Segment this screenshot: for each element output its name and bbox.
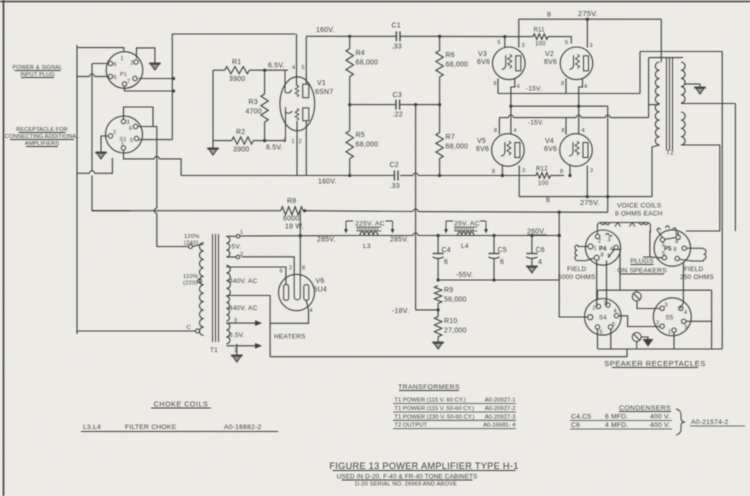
- dimension arrows 225VAC: [346, 221, 393, 231]
- wire R6 top: [439, 36, 441, 50]
- svg-text:4: 4: [584, 84, 587, 90]
- capacitor C3: [395, 100, 397, 110]
- svg-text:400 V.: 400 V.: [650, 422, 670, 429]
- wire R7 bottom: [439, 159, 441, 176]
- junction 559 at rail: [558, 234, 561, 237]
- wire -18V: [416, 309, 439, 311]
- wire screw to S5 pin3: [637, 302, 660, 309]
- wire V3 pin4 down: [511, 79, 515, 135]
- resistor R9: [434, 286, 441, 304]
- wire R2 right to V1 grid2: [253, 140, 285, 142]
- screw terminal bottom: [632, 333, 641, 342]
- bottom rail 160V part3: [418, 175, 536, 177]
- svg-text:1: 1: [240, 230, 243, 236]
- svg-text:ON SPEAKERS: ON SPEAKERS: [617, 268, 667, 275]
- wire C3 node right: [400, 104, 440, 106]
- wire T2 sec bottom end: [681, 144, 720, 146]
- wire 440 center tap down: [226, 296, 270, 357]
- svg-text:6: 6: [114, 62, 117, 68]
- svg-text:C5: C5: [498, 247, 507, 254]
- junction 212 at 559: [558, 211, 561, 214]
- svg-text:T1 POWER (115 V. 50-60 CY.): T1 POWER (115 V. 50-60 CY.): [394, 406, 474, 412]
- junction R6 top: [438, 35, 441, 38]
- junction R1-R3: [263, 69, 266, 72]
- transformer T1 core: [213, 234, 219, 342]
- connector P5 speaker plug: [654, 230, 690, 266]
- wire C5 top: [493, 236, 495, 254]
- svg-text:6 MFD.: 6 MFD.: [605, 414, 628, 421]
- rail 285V main: [240, 235, 357, 238]
- wire V3 pin3 feed: [518, 19, 520, 47]
- label PLUGS underline: [631, 264, 654, 266]
- wire T2 ground stub: [684, 83, 700, 85]
- rail 285V to L4: [381, 235, 413, 237]
- field coil 5000 ohm: [578, 245, 588, 247]
- wire P4 pin5 stub down: [606, 261, 608, 306]
- svg-text:8: 8: [601, 253, 604, 259]
- wire V5 pin8 bottom: [501, 165, 503, 176]
- svg-text:C6: C6: [571, 422, 580, 429]
- rail 275V top: [519, 18, 662, 20]
- svg-text:6.5V.: 6.5V.: [229, 332, 245, 339]
- wire V1 bottom grid to rail: [296, 121, 298, 176]
- wire T2 primary top feed: [660, 19, 662, 62]
- wire P1 pin8 to shield box: [125, 86, 174, 91]
- junction V3 pin5: [503, 35, 506, 38]
- resistor R6: [436, 51, 443, 78]
- svg-text:440V. AC: 440V. AC: [229, 278, 258, 285]
- svg-text:R12: R12: [536, 167, 548, 173]
- wire P4 pin4 right down: [613, 250, 621, 291]
- svg-text:V6: V6: [316, 278, 325, 285]
- wire S1 pin5 right to grid line: [139, 139, 173, 141]
- wire R1R2 left vertical: [212, 70, 214, 145]
- wire heater ground bus: [270, 349, 627, 357]
- svg-text:68,000: 68,000: [356, 142, 379, 149]
- rail R8 to plate rail: [303, 210, 413, 213]
- svg-text:CONDENSERS: CONDENSERS: [619, 405, 671, 412]
- svg-text:2: 2: [593, 306, 596, 312]
- junction P1 pin7 at box: [172, 77, 175, 80]
- svg-text:C6: C6: [536, 247, 545, 254]
- label ON SPEAKERS underline: [620, 273, 664, 275]
- wire R1 right to V1 grid: [249, 69, 288, 71]
- screw terminal top: [632, 292, 641, 301]
- svg-text:.33: .33: [392, 44, 402, 51]
- transformer T1 primary: [199, 243, 203, 336]
- resistor R8: [281, 207, 303, 215]
- svg-text:4: 4: [538, 259, 542, 266]
- svg-text:A0-16682-2: A0-16682-2: [224, 424, 262, 431]
- svg-text:PLUGS: PLUGS: [630, 258, 654, 265]
- hop bias rail 2: [576, 115, 581, 117]
- wire -55V to S4: [559, 280, 587, 317]
- svg-text:4: 4: [292, 65, 295, 71]
- label SPEAKER RECEPTACLES underline: [612, 367, 698, 369]
- svg-text:L3: L3: [363, 243, 371, 250]
- wire S4 bottom left: [597, 329, 599, 349]
- wire S1 pin1 to cathode rail part2: [159, 159, 181, 176]
- svg-text:USED IN D-20, F-40 & FR-40 TON: USED IN D-20, F-40 & FR-40 TONE CABINETS: [337, 474, 478, 481]
- capacitor C2: [393, 171, 395, 181]
- rail -15V lower b: [513, 117, 576, 119]
- svg-text:D-20 SERIAL NO. 26969 AND ABOV: D-20 SERIAL NO. 26969 AND ABOVE: [355, 482, 457, 488]
- wire S5 bottom: [673, 332, 675, 349]
- svg-text:3: 3: [522, 168, 525, 174]
- table transformers row4 underline: [393, 428, 516, 430]
- ground at T2 secondary: [699, 84, 701, 87]
- transformer T1 sec 6.5V: [226, 323, 229, 344]
- svg-text:6V6: 6V6: [544, 146, 557, 153]
- wire T2 right vertical: [721, 52, 723, 350]
- svg-text:TRANSFORMERS: TRANSFORMERS: [398, 384, 460, 391]
- arrow heater top: [255, 320, 262, 326]
- rail 260V: [477, 235, 559, 237]
- wire S1 pin1 to cathode rail: [124, 150, 155, 159]
- wire V5 pin8 top: [498, 118, 500, 135]
- junction V2 pin4 screen rail: [577, 105, 580, 108]
- ground under R10: [437, 339, 439, 342]
- table transformers row3 underline: [393, 419, 516, 421]
- wire center tap top: [649, 57, 683, 59]
- resistor R10: [434, 317, 441, 337]
- svg-text:L4: L4: [461, 243, 469, 250]
- wire coils to 720: [686, 230, 720, 232]
- svg-text:V5: V5: [477, 138, 486, 145]
- wire 275V to V2 pin3: [586, 19, 588, 47]
- svg-text:4700: 4700: [246, 109, 262, 116]
- svg-text:225V. AC: 225V. AC: [355, 221, 385, 228]
- svg-text:5: 5: [114, 75, 117, 81]
- svg-text:R2: R2: [236, 129, 245, 136]
- label 260V underline: [527, 234, 547, 236]
- junction R4-R5-C3: [348, 103, 351, 106]
- svg-text:3: 3: [590, 43, 593, 49]
- junction C3 right: [438, 103, 441, 106]
- wire center tap: [649, 104, 660, 106]
- svg-text:3: 3: [608, 238, 611, 244]
- caption FIGURE 13 underline: [333, 470, 516, 472]
- svg-text:7: 7: [127, 79, 130, 85]
- ground at speaker box: [643, 339, 654, 347]
- svg-text:C1: C1: [392, 23, 401, 30]
- wire S4-S5 link: [619, 316, 661, 327]
- svg-text:260V.: 260V.: [527, 229, 546, 236]
- svg-text:A0-16681- 4: A0-16681- 4: [483, 423, 516, 429]
- terminal T1 tap 110: [198, 279, 202, 283]
- wire left bus vertical: [76, 45, 78, 334]
- wire 160V rail to V1 plate: [305, 36, 307, 84]
- junction -18V node: [437, 308, 440, 311]
- svg-text:4 MFD.: 4 MFD.: [605, 422, 628, 429]
- svg-text:2: 2: [289, 266, 292, 272]
- wire pin6 bus lower part: [157, 213, 189, 246]
- wire heater lead top: [226, 322, 256, 324]
- svg-text:5: 5: [662, 251, 665, 257]
- junction rail R4: [348, 35, 351, 38]
- table condensers row1 underline: [570, 420, 672, 422]
- terminal T1 tap C: [196, 329, 200, 333]
- label CONNECTING ADDITIONAL underline: [10, 139, 74, 141]
- svg-text:-18V.: -18V.: [392, 308, 409, 315]
- wire P1 pin5 right part: [95, 76, 110, 78]
- svg-text:-15V.: -15V.: [526, 86, 542, 93]
- wire recept box right: [711, 290, 713, 349]
- svg-text:8: 8: [674, 247, 677, 253]
- resistor R5: [346, 131, 353, 159]
- wire right vertical 735: [734, 104, 736, 232]
- hop pin6 bus over R8 rail: [154, 208, 157, 213]
- junction -55 C5: [492, 278, 495, 281]
- svg-text:100: 100: [535, 42, 546, 48]
- rail R8 to plate rail part2: [418, 211, 608, 214]
- tube V5 6V6: [492, 134, 525, 167]
- svg-text:C4,C5: C4,C5: [571, 414, 591, 421]
- svg-text:6: 6: [600, 330, 603, 336]
- tube V1 6SN7: [280, 77, 315, 131]
- table transformers row1 underline: [393, 403, 516, 405]
- wire S1 ground bus: [77, 172, 90, 174]
- wire V4 pin8 bottom: [569, 165, 571, 176]
- hop R8 rail over bias vertical: [413, 209, 418, 212]
- resistor R2: [232, 137, 254, 144]
- wire S1 pin2 to ground: [101, 136, 108, 149]
- svg-text:4: 4: [514, 128, 517, 134]
- svg-text:2: 2: [113, 130, 116, 136]
- svg-text:R4: R4: [356, 50, 365, 57]
- svg-text:T2 OUTPUT: T2 OUTPUT: [394, 423, 427, 429]
- terminal T1 sec1 pin2: [236, 255, 240, 259]
- wire recept box left top: [597, 290, 599, 300]
- table title CONDENSERS underline: [619, 411, 671, 413]
- table title TRANSFORMERS underline: [399, 390, 459, 392]
- svg-text:(220): (220): [183, 281, 198, 287]
- svg-text:2: 2: [656, 321, 659, 327]
- wire P1 pin1 to left bus: [77, 48, 124, 52]
- wire P4 pin8 stub down: [596, 260, 598, 307]
- junction R7 rail: [438, 174, 441, 177]
- svg-text:A0-20927-3: A0-20927-3: [485, 414, 517, 420]
- hop bias rail 3: [605, 115, 610, 117]
- svg-text:3: 3: [283, 138, 286, 144]
- rail R8 wire: [92, 210, 281, 212]
- svg-text:8: 8: [562, 128, 565, 134]
- voice coil symbols: [597, 223, 650, 234]
- wire S1 ground bus right: [95, 158, 113, 173]
- junction R3-R2: [263, 139, 266, 142]
- ground under C6: [531, 263, 533, 266]
- svg-text:250 OHMS: 250 OHMS: [680, 274, 714, 281]
- resistor R7: [436, 133, 443, 159]
- svg-text:160V.: 160V.: [318, 179, 337, 186]
- svg-text:C: C: [187, 325, 191, 331]
- svg-text:2: 2: [131, 61, 134, 67]
- junction V2 feed: [586, 18, 589, 21]
- svg-text:68,000: 68,000: [356, 60, 379, 67]
- choke L4: [455, 232, 477, 236]
- wire V5 pin3 to plate rail: [518, 166, 520, 197]
- svg-text:T1 POWER (230 V. 50-60 CY.): T1 POWER (230 V. 50-60 CY.): [394, 414, 474, 420]
- connector S1 receptacle: [106, 116, 143, 153]
- wire R6-R7 link: [439, 77, 441, 133]
- resistor R4: [346, 49, 353, 77]
- svg-text:R8: R8: [287, 198, 296, 205]
- svg-text:2: 2: [299, 139, 302, 145]
- junction rail C6: [530, 234, 533, 237]
- wire recept box bottom: [598, 348, 722, 350]
- svg-text:100: 100: [538, 181, 549, 187]
- svg-text:25V. AC: 25V. AC: [454, 221, 480, 228]
- svg-text:3900: 3900: [229, 76, 245, 83]
- junction R5 rail: [348, 174, 351, 177]
- svg-text:(240): (240): [184, 241, 199, 247]
- svg-text:3: 3: [590, 168, 593, 174]
- capacitor C5: [489, 253, 500, 255]
- svg-text:27,000: 27,000: [444, 328, 467, 335]
- wire ground stub speaker: [641, 337, 648, 339]
- transformer T2 secondary bottom: [681, 112, 685, 145]
- svg-text:120%: 120%: [184, 234, 200, 240]
- wire V4 pin3 to plate rail: [586, 166, 588, 197]
- svg-text:A0-21574-2: A0-21574-2: [691, 419, 729, 426]
- ground under R1R2: [212, 145, 214, 148]
- svg-text:1: 1: [594, 246, 597, 252]
- svg-text:FILTER CHOKE: FILTER CHOKE: [125, 424, 177, 431]
- svg-text:V4: V4: [545, 138, 554, 145]
- svg-text:56,000: 56,000: [444, 297, 467, 304]
- wire C tap: [77, 331, 196, 334]
- junction V6 pin8 at 285V rail: [299, 234, 302, 237]
- ground under T1: [236, 352, 238, 355]
- svg-text:6.5V.: 6.5V.: [268, 63, 285, 70]
- rail -15V lower: [499, 117, 508, 119]
- label AMPLIFIERS underline: [26, 146, 58, 148]
- wire 5V lead2 to V6 filament: [242, 257, 294, 271]
- svg-text:5: 5: [498, 40, 501, 46]
- svg-text:6V6: 6V6: [544, 59, 557, 66]
- caption USED IN underline: [342, 479, 473, 481]
- svg-text:4: 4: [684, 310, 687, 316]
- svg-text:FIGURE 13 POWER AMPLIFIER: FIGURE 13 POWER AMPLIFIER TYPE H-1: [329, 461, 518, 471]
- svg-text:R3: R3: [249, 99, 258, 106]
- svg-text:400 V.: 400 V.: [650, 414, 670, 421]
- rail 285V to L4 part2: [418, 235, 455, 237]
- wire V4 pin8 top: [565, 118, 567, 135]
- wire C6 bottom: [531, 258, 533, 263]
- wire V1 grid pin4 from box top: [296, 34, 298, 86]
- wire T1 ground stub: [236, 344, 238, 352]
- svg-text:18 W.: 18 W.: [285, 224, 304, 231]
- wire voice coil right end down: [649, 230, 651, 232]
- capacitor C6: [526, 253, 537, 255]
- wire R5 bottom: [349, 159, 351, 176]
- svg-text:VOICE COILS: VOICE COILS: [617, 203, 662, 210]
- rail 160V top right of C1: [400, 35, 440, 37]
- wire pin6 bus vertical lower: [92, 176, 130, 211]
- rail -15V upper: [498, 93, 640, 95]
- ground at P1 pin2: [154, 60, 156, 63]
- terminal T1 tap 120: [189, 245, 193, 249]
- svg-text:3: 3: [665, 303, 668, 309]
- wire R11 right to V2 pin5: [548, 37, 571, 44]
- junction C3 left vertical: [414, 103, 417, 106]
- wire recept box top: [598, 289, 712, 291]
- tube V2 6V6: [560, 47, 593, 80]
- wire R4 top: [349, 36, 351, 48]
- transformer T2 secondary top: [681, 62, 685, 103]
- bottom rail 160V / cathode rail: [181, 175, 394, 177]
- wire S5 pin5 right: [686, 320, 712, 322]
- junction P1 pin8 at box: [172, 89, 175, 92]
- svg-text:FIELD: FIELD: [684, 266, 704, 273]
- rail 275V bottom: [519, 196, 652, 198]
- svg-text:R10: R10: [444, 318, 457, 325]
- wire R4 bottom to node: [349, 77, 351, 131]
- wire C4 top: [437, 236, 439, 254]
- svg-text:160V.: 160V.: [316, 27, 335, 34]
- svg-text:4: 4: [675, 240, 678, 246]
- wire C3 node: [350, 104, 396, 106]
- tube V3 6V6: [493, 47, 526, 80]
- wire R2 left: [213, 140, 232, 142]
- svg-text:285V.: 285V.: [390, 237, 409, 244]
- table title CHOKE COILS underline: [151, 407, 211, 409]
- resistor R1: [225, 67, 250, 74]
- svg-text:V3: V3: [478, 51, 487, 58]
- tube V4 6V6: [560, 134, 593, 167]
- wire V2 pin8 down: [565, 79, 567, 94]
- wire P5 down to S5: [680, 262, 683, 309]
- svg-text:5U4: 5U4: [314, 287, 327, 294]
- wire P1 pin2 to ground: [137, 48, 155, 60]
- svg-text:A0-20927-2: A0-20927-2: [485, 406, 516, 412]
- svg-text:1: 1: [604, 301, 607, 307]
- transformer T2 core: [667, 58, 673, 150]
- svg-text:S4: S4: [599, 316, 607, 322]
- rail -15V lower c: [581, 117, 605, 119]
- svg-text:FIELD: FIELD: [567, 266, 587, 273]
- shield box top edge: [172, 34, 295, 140]
- svg-text:B: B: [546, 198, 550, 204]
- junction V3 pin4 screen rail: [509, 105, 512, 108]
- svg-text:6V6: 6V6: [476, 146, 489, 153]
- junction plate rail 608: [606, 195, 609, 198]
- svg-text:4: 4: [310, 308, 313, 314]
- wire center tap up: [648, 58, 650, 118]
- svg-text:T1 POWER (115 V. 60 CY.): T1 POWER (115 V. 60 CY.): [394, 398, 465, 404]
- svg-text:5V.: 5V.: [232, 244, 242, 251]
- wire V3 pin5 stub: [504, 37, 506, 47]
- svg-text:R6: R6: [446, 52, 455, 59]
- svg-text:6000: 6000: [283, 216, 299, 223]
- svg-text:1: 1: [121, 142, 124, 148]
- wire pin6 bus vertical to R8 rail: [91, 64, 93, 172]
- hop 160V rail over bias vertical: [413, 173, 418, 175]
- arrow heater bottom: [255, 343, 262, 349]
- svg-text:C2: C2: [390, 162, 399, 169]
- svg-text:6: 6: [444, 259, 448, 266]
- svg-text:T1: T1: [210, 347, 218, 354]
- svg-text:S5: S5: [666, 316, 674, 322]
- svg-text:-55V.: -55V.: [456, 272, 473, 279]
- wire P5 pin5 up bus: [649, 231, 651, 257]
- table condensers row2 underline: [570, 428, 672, 430]
- svg-text:5: 5: [565, 40, 568, 46]
- svg-text:5: 5: [302, 65, 305, 71]
- wire T2 left down: [639, 52, 641, 94]
- label POWER & SIGNAL INPUT PLUG underline: [15, 70, 61, 72]
- rail -15V lower d: [610, 117, 648, 119]
